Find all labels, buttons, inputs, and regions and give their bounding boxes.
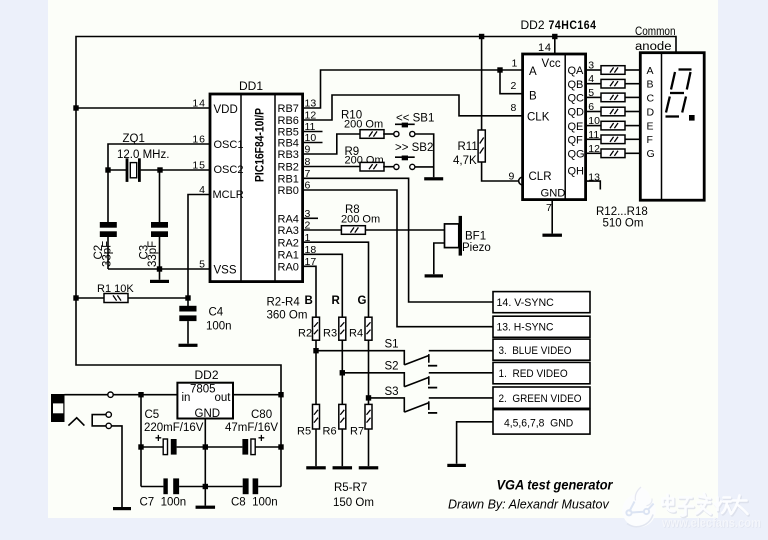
resistor R1 [104,294,128,303]
svg-text:Vcc: Vcc [542,58,561,70]
junction S1 tap [313,348,318,353]
svg-text:RB6: RB6 [278,115,299,127]
wire R1 left [76,297,104,299]
svg-text:out: out [215,392,232,404]
svg-text:C80: C80 [251,409,272,421]
wire RA2 to R4 G [303,242,369,317]
resistor R3 [339,317,346,340]
wire C4 bottom [187,321,189,344]
ground under R7 [359,466,379,469]
wire VGA GND to ground [457,422,493,464]
switch S2 contact tick [428,376,430,385]
svg-text:QH: QH [568,166,585,178]
wire jack ground [111,426,122,507]
switch S2 open contact dash [428,387,437,389]
svg-text:E: E [647,121,654,133]
svg-text:GND: GND [541,188,566,200]
resistor R15 [601,107,625,116]
wire C5 column [140,395,142,487]
svg-text:RA3: RA3 [278,225,299,237]
button SB2 [394,156,415,170]
VGA connector row 1.&#160; RED VIDEO [493,362,590,383]
wire R10 to SB1 [383,133,394,135]
svg-text:13. H-SYNC: 13. H-SYNC [497,322,554,334]
svg-text:150 Om: 150 Om [333,497,374,509]
resistor R16 [601,121,625,130]
svg-text:+: + [258,433,265,445]
wire R9 to SB2 [383,166,394,168]
junction A-B tie [497,67,502,72]
regulator 7805 body [177,383,233,419]
svg-text:DD2: DD2 [521,18,545,32]
IC DD1 PIC16F84 body [210,94,303,282]
svg-text:OSC1: OSC1 [214,139,244,151]
switch S3 open contact dash [428,412,437,414]
svg-text:33pF: 33pF [102,241,114,267]
watermark url text [661,515,761,531]
VGA connector row 14. V-SYNC [493,292,590,313]
svg-text:VGA test generator: VGA test generator [497,478,614,493]
svg-text:BF1: BF1 [465,231,486,243]
svg-text:74HC164: 74HC164 [549,18,597,32]
svg-text:1. RED VIDEO: 1. RED VIDEO [499,368,568,380]
wire RA0 to R2 B [303,266,316,317]
ground under C4 [179,344,198,347]
wire Vcc pin 14 [554,37,556,55]
wire R4 to R7 [368,340,370,404]
switch S1 contact tick [428,354,430,363]
switch S3 wire out [429,397,493,399]
switch S1 arm [404,356,429,365]
capacitor C4 [179,306,196,321]
ground under R5 [306,466,326,469]
resistor R11 [478,130,485,162]
junction C5 row [138,444,143,449]
svg-text:www.elecfans.com: www.elecfans.com [661,515,761,530]
svg-text:R5: R5 [297,426,311,438]
svg-text:PIC16F84-10I/P: PIC16F84-10I/P [255,108,267,182]
resistor R2 [313,317,320,340]
junction gnd row1 [203,444,208,449]
ground under SB buttons [424,177,443,180]
resistor R17 [601,135,625,144]
wire R13 to display [625,83,641,85]
wire C80 right [255,446,281,448]
svg-text:VSS: VSS [214,265,237,277]
svg-text:RA2: RA2 [278,237,299,249]
wire SB1 to ground [415,134,434,177]
svg-text:12.0 MHz.: 12.0 MHz. [117,149,169,161]
wire QE to R16 [586,125,601,127]
switch S1 open contact dash [428,365,437,367]
junction out [278,392,283,397]
watermark chinese characters [663,494,749,517]
svg-text:3. BLUE VIDEO: 3. BLUE VIDEO [499,345,572,357]
svg-text:R5-R7: R5-R7 [334,482,367,494]
jack pin circle mid [106,412,111,417]
capacitor C7 [163,478,179,494]
wire R7 to ground [368,429,370,466]
wire R16 to display [625,125,641,127]
svg-text:R6: R6 [323,426,337,438]
wire R8 to BF1 [366,229,445,231]
switch S1 wire in [316,351,404,365]
svg-text:anode: anode [635,41,672,53]
resistor R10 [360,130,384,139]
svg-text:S2: S2 [385,361,399,373]
wire C3 top [159,170,161,222]
junction at R11 top [479,34,484,39]
wire RA4 stub [303,217,318,219]
jack pin circle low [106,423,111,428]
wire QA to R12 [586,69,601,71]
digit segment F upper-left [671,72,675,90]
svg-text:QE: QE [568,121,584,133]
wire RB5 stub [303,131,323,133]
resistor R13 [601,79,625,88]
wire C7 left [141,486,163,488]
crystal ZQ1 [126,158,141,182]
svg-text:B: B [305,295,313,307]
switch S2 arm [404,377,429,386]
wire GND pin 7 [551,200,553,234]
svg-text:4,5,6,7,8 GND: 4,5,6,7,8 GND [504,417,573,429]
svg-text:S3: S3 [385,386,399,398]
ground under 7805 [196,506,216,509]
junction S2 tap [340,370,345,375]
wire RA3 to R8 [303,229,342,231]
resistor R7 [365,404,372,429]
IC DD2 74HC164 body [523,54,586,200]
wire QH stub [586,181,601,189]
svg-text:7: 7 [546,202,552,214]
VGA connector row 4,5,6,7,8&#160; GND [493,410,590,435]
svg-text:CLR: CLR [529,171,552,183]
svg-text:F: F [647,134,653,146]
wire jack to 7805 in [65,394,108,396]
svg-text:D: D [647,106,655,118]
wire R12 to display [625,69,641,71]
svg-text:RB0: RB0 [278,185,299,197]
wire C3 ground stub [159,269,161,280]
digit segment A top [679,68,692,70]
wire SB2 to ground vertical [415,166,434,168]
svg-text:1: 1 [512,58,518,70]
digit segment D bottom [666,115,680,117]
wire QC to R14 [586,96,601,98]
wire R6 to ground [341,429,343,466]
wire C5 to C80 [177,446,243,448]
switch S2 wire in [342,373,404,387]
svg-text:QD: QD [568,107,585,119]
svg-text:9: 9 [509,171,515,183]
svg-text:CLK: CLK [527,111,550,123]
wire R17 to display [625,138,641,140]
svg-text:OSC2: OSC2 [214,164,244,176]
digit segment C lower-right [682,97,686,113]
svg-text:220mF/16V: 220mF/16V [144,422,204,434]
svg-text:VDD: VDD [214,104,238,116]
svg-text:R2: R2 [298,328,312,340]
junction C3 ground [157,266,162,271]
wire OSC1 [108,144,210,222]
power jack lever [68,418,84,426]
wire crystal left [108,169,126,171]
svg-text:C: C [647,92,655,104]
svg-text:A: A [529,66,537,78]
wire C8 right [258,486,281,488]
resistor R12 [601,66,625,75]
ground under C3 [150,280,169,283]
wire 7805 out [233,394,281,396]
wire RB6 to CLK [303,95,523,120]
svg-text:R2-R4: R2-R4 [267,297,301,309]
svg-text:<< SB1: << SB1 [396,112,434,124]
svg-text:>> SB2: >> SB2 [395,142,433,154]
svg-text:G: G [647,148,655,160]
wire RB1 to V-SYNC [303,178,493,302]
svg-text:B: B [647,79,654,91]
switch S3 arm [404,403,429,412]
watermark logo circle [622,487,656,527]
wire VSS [108,268,210,270]
svg-text:7805: 7805 [190,384,216,396]
digit segment B upper-right [687,72,691,90]
svg-text:in: in [182,392,191,404]
svg-text:RB7: RB7 [278,103,299,115]
svg-text:ZQ1: ZQ1 [123,133,145,145]
svg-text:RA1: RA1 [278,250,299,262]
power jack plug [51,394,65,422]
wire R11 top [481,37,483,131]
svg-text:C4: C4 [209,307,224,319]
wire VDD pin14 [76,107,210,109]
svg-text:DD1: DD1 [239,79,263,93]
wire C3 bottom [159,237,161,269]
svg-text:RB4: RB4 [278,138,299,150]
svg-text:510 Om: 510 Om [603,217,644,229]
wire MCLR [188,195,210,299]
piezo BF1 [445,216,463,256]
svg-text:GND: GND [195,408,221,420]
junction at DD2 Vcc [552,34,557,39]
DD2 internal partition [564,54,566,200]
svg-text:A: A [647,65,654,77]
wire 7805 gnd column [204,419,206,506]
svg-text:B: B [529,91,537,103]
wire QG to R18 [586,152,601,154]
junction C5 top [138,392,143,397]
wire R3 to R6 [341,340,343,404]
junction C80 right [278,444,283,449]
wire R11 to CLR [482,162,519,181]
junction S3 tap [366,395,371,400]
svg-text:RB3: RB3 [278,149,299,161]
junction crystal right [157,167,162,172]
VGA connector row 13. H-SYNC [493,316,590,337]
DD1 internal partition right [274,94,276,282]
svg-text:+: + [155,433,162,445]
svg-text:200 Om: 200 Om [341,214,380,226]
svg-text:Drawn By: Alexandr Musatov: Drawn By: Alexandr Musatov [448,498,609,512]
svg-text:QC: QC [568,93,585,105]
wire crystal right [141,169,160,171]
button SB1 [394,123,415,137]
resistor R18 [601,149,625,158]
resistor R5 [313,404,320,429]
wire circle to in [113,394,177,396]
VGA connector row 3.&#160; BLUE VIDEO [493,339,590,360]
digit segment G middle [670,92,684,94]
wire R18 to display [625,152,641,154]
svg-text:C7 100n: C7 100n [140,497,187,509]
digit decimal point [689,115,695,121]
resistor R8 [341,226,365,235]
svg-text:QA: QA [568,65,585,77]
svg-text:QF: QF [568,135,584,147]
wire RB4 stub [303,142,323,144]
svg-text:4,7K: 4,7K [453,155,477,167]
wire R15 to display [625,111,641,113]
display DS1 body [640,53,704,201]
wire QD to R15 [586,111,601,113]
junction R1-C4-MCLR [185,295,190,300]
ground under R6 [333,466,353,469]
svg-text:R11: R11 [458,141,478,153]
capacitor C3 [151,222,168,237]
wire R2 to R5 [315,340,317,404]
wire BF1 to ground [434,243,445,274]
svg-text:DD2: DD2 [195,368,219,382]
svg-text:QB: QB [568,79,584,91]
capacitor C5 [163,439,176,455]
VGA connector row 2.&#160; GREEN VIDEO [493,387,590,408]
wire +5V rail top and left loop [76,37,676,487]
svg-text:R1 10K: R1 10K [97,283,134,295]
svg-text:100n: 100n [206,321,232,333]
svg-text:14: 14 [538,42,552,54]
wire OSC2 [160,169,210,171]
svg-text:RB2: RB2 [278,162,299,174]
wire C7 to C8 [179,486,243,488]
svg-text:C8 100n: C8 100n [231,497,278,509]
capacitor C8 [243,478,259,494]
junction R1 left [73,295,78,300]
resistor R6 [339,404,346,429]
switch S3 contact tick [428,401,430,410]
svg-text:G: G [358,295,367,307]
wire R5 to ground [315,429,317,466]
capacitor C2 [100,222,117,237]
wire RB2 to R9 [303,166,360,168]
ground under DD2 [542,234,562,237]
svg-text:RB1: RB1 [278,174,299,186]
svg-text:R7: R7 [350,426,364,438]
svg-text:8: 8 [511,102,517,114]
wire C2 bottom [107,237,109,269]
switch S1 wire out [429,350,493,352]
wire R14 to display [625,96,641,98]
svg-text:QG: QG [568,149,585,161]
switch S2 wire out [429,372,493,374]
switch S3 wire in [369,398,405,412]
svg-text:47mF/16V: 47mF/16V [225,422,278,434]
junction VDD on +5 line [73,105,78,110]
wire R1 right [128,297,188,299]
jack pin circle top [108,392,113,397]
jack bracket [92,415,108,426]
wire QB to R13 [586,83,601,85]
svg-text:R12...R18: R12...R18 [596,206,648,218]
svg-text:RA4: RA4 [278,214,299,226]
wire RB3 to R10 [303,134,360,154]
capacitor C80 [242,439,255,455]
svg-text:S1: S1 [385,339,399,351]
junction gnd row2 [203,484,208,489]
wire C4 top [187,298,189,306]
wire RB7 to A [303,70,523,108]
DD1 internal partition left [240,94,242,282]
ground under VGA GND [447,464,466,467]
svg-text:R4: R4 [349,328,363,340]
svg-text:Piezo: Piezo [462,242,491,254]
svg-text:33pF: 33pF [147,241,159,267]
wire A to B tie [500,70,523,94]
svg-text:2. GREEN VIDEO: 2. GREEN VIDEO [499,393,582,405]
svg-text:R: R [332,295,341,307]
wire RA1 to R3 R [303,254,343,317]
svg-text:14. V-SYNC: 14. V-SYNC [497,297,554,309]
resistor R9 [360,162,384,171]
svg-text:C5: C5 [145,409,160,421]
ground under BF1 [425,274,443,277]
svg-text:R3: R3 [323,328,337,340]
svg-text:360 Om: 360 Om [267,310,308,322]
junction crystal left [105,167,110,172]
svg-text:MCLR: MCLR [213,189,244,201]
resistor R14 [601,93,625,102]
svg-text:2: 2 [511,80,517,92]
resistor R4 [365,317,372,340]
svg-text:200 Om: 200 Om [344,119,383,131]
wire QF to R17 [586,138,601,140]
ground under jack [113,507,131,510]
digit segment E lower-left [666,97,670,113]
wire C5 left [141,446,163,448]
CLR inversion bubble [519,177,527,185]
display internal partition [661,53,663,201]
wire RB0 to H-SYNC [303,190,493,327]
svg-text:Common: Common [635,26,676,38]
svg-text:RA0: RA0 [278,262,299,274]
